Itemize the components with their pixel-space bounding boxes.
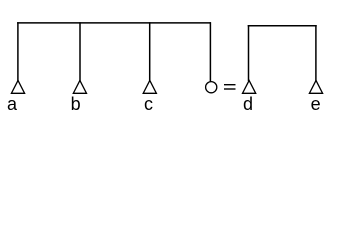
node d: triangle symbol — [243, 80, 256, 93]
node a: triangle symbol — [11, 80, 24, 93]
wire: right bus top horizontal line — [248, 25, 317, 27]
wire: vertical drop to triangle e — [315, 25, 317, 81]
wire: vertical drop to triangle d — [248, 25, 250, 81]
wire: left bus top horizontal line — [17, 22, 211, 24]
equals sign: bottom bar — [224, 88, 236, 89]
svg-text:c: c — [144, 94, 153, 114]
wire: vertical drop to triangle a — [17, 22, 19, 81]
wire: vertical drop to triangle b — [79, 22, 81, 81]
svg-text:a: a — [7, 94, 18, 114]
equals sign: top bar — [224, 84, 236, 85]
svg-text:e: e — [311, 94, 321, 114]
wire: vertical drop to triangle c — [149, 22, 151, 81]
node e: triangle symbol — [309, 80, 322, 93]
wire: vertical drop to circle node — [209, 22, 211, 81]
node: circle symbol — [206, 82, 217, 93]
svg-text:d: d — [243, 94, 253, 114]
svg-text:b: b — [71, 94, 81, 114]
node c: triangle symbol — [143, 80, 156, 93]
node b: triangle symbol — [73, 80, 86, 93]
